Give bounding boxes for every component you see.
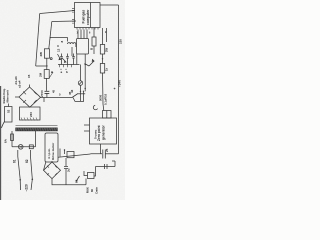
capacitor C7 [64,158,68,185]
relay box K2 [77,39,89,55]
wire stub 2 [64,150,66,155]
U1 pin wires down [78,30,87,39]
BR2 diode marks [47,166,57,176]
S2 dot [32,179,34,181]
wire R7 down to tab [103,73,104,111]
wire cap rail to V1 [80,65,82,81]
P1 cord [2,122,5,129]
switch S2 pole [31,150,33,179]
R2 wiper arrow [49,71,53,77]
BR2 bottom wire [52,179,86,185]
rail top hook [100,4,119,6]
wire V1 down [80,85,82,101]
resistor R4 [29,145,33,149]
tab divider [106,111,108,119]
wire motor to BR2 left [44,162,46,170]
wire to D7 [85,64,90,67]
relay K1 box [88,173,95,179]
bridge rectifier BR1 [19,87,41,107]
scan edge line left [0,86,2,200]
T1 secondary hatch [21,118,38,121]
wire stub above K3 [59,149,61,157]
resistor R1 [44,49,49,58]
resistor R7 [100,64,104,74]
wire R6-R7 [102,54,104,64]
node circle at R1 [50,58,52,60]
lamp H1 cross [19,145,22,148]
S2 tail [31,179,32,190]
wire K2 left leg [76,54,78,65]
U2 top tab [103,111,112,119]
vertical x106 [106,28,108,42]
wire C8 right up [112,161,115,167]
BR2 output wire right [58,154,91,157]
resistor R6 [100,45,104,55]
switch S1 pole [18,150,20,180]
BR1 left stub [15,96,19,98]
transformer T1 secondary box [20,107,41,120]
wire W2 vertical leg [49,22,52,49]
wire from BR2 bottom rail up [85,179,87,185]
capacitor bank rail [58,64,80,66]
T1 primary hatch [17,128,57,131]
wire R2 down [46,78,48,91]
rail to C6 [118,151,120,154]
motor M1 box [45,133,58,162]
U2 left pins [84,125,90,131]
plug top stub wire [8,104,10,107]
wire rail right [73,91,84,101]
coil L1 bumps [68,43,76,47]
S1 tail [19,180,21,190]
wire down-left from C8 [94,167,96,177]
wire after S4 [78,93,85,95]
pulse generator box U2 [90,118,117,144]
switch S63 blade [76,176,80,182]
wire W1 to U1 pin1 [40,11,75,14]
BR2 top wire [51,161,53,162]
junction dot K2b [85,88,86,89]
relay contact box K3 [67,152,74,158]
switch S4 blade [72,94,78,98]
capacitor C2 [60,54,63,65]
junction dot K2a [85,64,86,65]
T1 core line [16,125,58,127]
wire W1 branch to chain [36,65,47,67]
rail stub tick [43,98,45,103]
capacitor C3 [66,54,69,65]
wire up from R4 [35,131,37,147]
IC box U1 computer unit [75,3,101,28]
U1 internal divider [90,3,92,28]
varistor V1 circle [78,81,82,85]
wire W1 vertical leg [36,14,40,67]
S1 dot [19,179,21,181]
diode D6 [62,58,66,62]
capacitor C1 plates [45,91,50,93]
fuse F1 wire [11,131,13,147]
indicator wire [12,146,36,148]
cap C5 loop [93,105,97,110]
lower cap C8 [96,164,116,169]
junction dot K3 [64,149,65,150]
wire pin to R5 [93,28,95,37]
junction dot right [83,91,84,92]
junction dot W2/W3 [50,37,51,38]
wire W3 branch [50,38,67,42]
wire C1 to rail [46,93,48,97]
capacitor C4 [72,54,75,65]
capacitor C6 plates [103,150,106,159]
wire left of K1 [84,171,88,176]
dots under rail [60,69,61,70]
wire R1-R2 [46,58,48,69]
plug box P1 [5,107,13,123]
U1 bottom pin hatch [77,28,98,30]
junction dot [80,91,81,92]
main rail wire [40,97,72,99]
wire K2 bottom down [84,54,86,91]
scan noise overlay [0,0,1,1]
junction dot branch [46,65,47,66]
diode D7 [89,60,94,67]
bridge rectifier BR2 [44,162,61,179]
V1 slash [79,82,82,85]
wire U2 bottom to cap [91,144,103,154]
C6 wire right [105,153,118,155]
right rail +V [118,5,120,151]
fuse F1 body [11,134,14,141]
wire W2 to U1 pin2 [52,20,76,23]
ground ticks under rail [60,65,72,68]
junction dot chain [102,58,103,59]
wire R5 down [93,46,95,54]
BR1 diode marks [23,92,36,103]
T1 primary winding bar [16,128,58,131]
wire from L1 down [71,47,73,56]
potentiometer R2 [44,70,49,79]
U1 connector pins bottom [72,20,75,23]
lamp H1 [18,145,23,150]
BR1 top stub [29,85,31,88]
U1 connector pins top [72,9,75,12]
diode D5 [58,54,61,60]
resistor R5 [92,37,96,46]
wire chain x102 top [102,28,104,45]
